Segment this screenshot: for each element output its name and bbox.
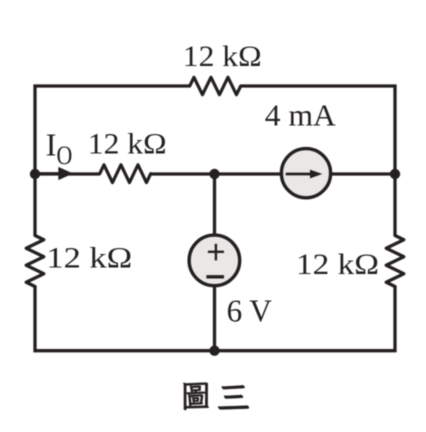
svg-text:12 kΩ: 12 kΩ [88, 128, 167, 161]
svg-text:12 kΩ: 12 kΩ [296, 248, 379, 281]
svg-text:I: I [46, 126, 57, 162]
svg-text:O: O [57, 141, 73, 170]
svg-text:6 V: 6 V [227, 293, 272, 329]
svg-text:12 kΩ: 12 kΩ [183, 40, 262, 73]
svg-text:12 kΩ: 12 kΩ [46, 241, 132, 274]
svg-text:4 mA: 4 mA [265, 98, 337, 132]
